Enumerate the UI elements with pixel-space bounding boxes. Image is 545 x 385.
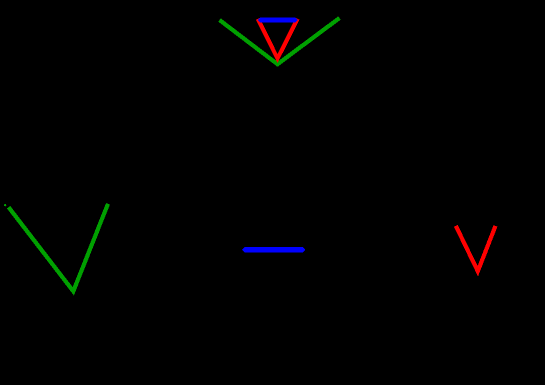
top red V bonds (ring) [258,19,298,59]
top blue bond [258,18,298,23]
top green V bonds [220,18,340,64]
right red V bonds [456,226,496,271]
center blue bond [242,247,305,252]
left green V bond end dot [4,204,6,206]
left green V bonds [9,204,108,291]
